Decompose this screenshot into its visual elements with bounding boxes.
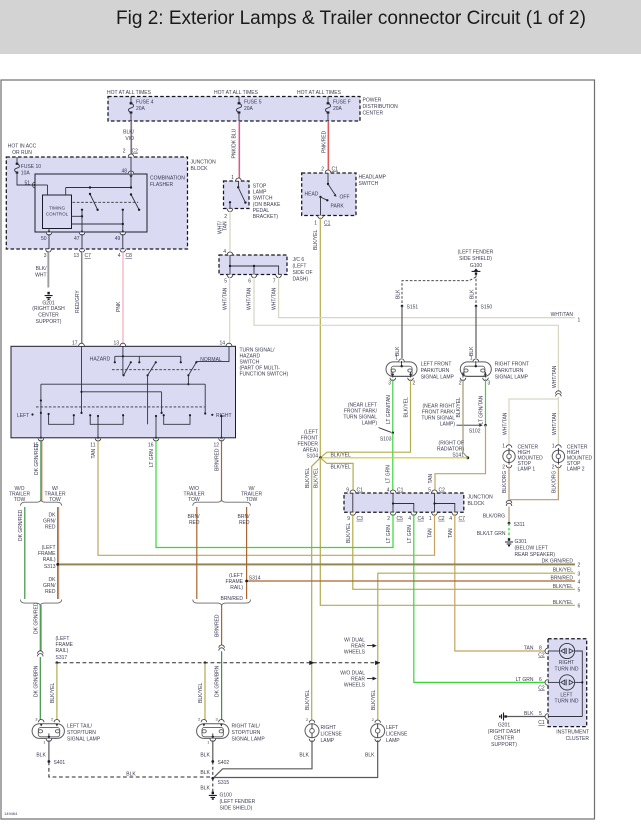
svg-text:SIDE SHIELD): SIDE SHIELD)	[459, 256, 492, 262]
pin 50 connector flasher bottom	[41, 229, 52, 242]
dashed BLK S402 to S315	[200, 762, 212, 779]
svg-text:OFF: OFF	[340, 195, 350, 201]
svg-text:C7: C7	[85, 253, 92, 259]
svg-text:BLK/YEL: BLK/YEL	[50, 682, 56, 703]
svg-text:BLK/YEL: BLK/YEL	[553, 584, 574, 590]
svg-text:SUPPORT): SUPPORT)	[491, 742, 517, 748]
svg-text:OR RUN: OR RUN	[12, 150, 32, 156]
svg-text:C7: C7	[459, 516, 466, 522]
svg-text:HOT AT ALL TIMES: HOT AT ALL TIMES	[214, 90, 259, 96]
svg-text:CLUSTER: CLUSTER	[566, 736, 590, 742]
svg-text:RIGHT: RIGHT	[321, 725, 337, 731]
svg-text:DK GRN/RED: DK GRN/RED	[542, 558, 574, 564]
headlamp switch box	[302, 173, 387, 216]
inline connector on right tail wire	[219, 645, 225, 651]
svg-text:J/C 6: J/C 6	[293, 257, 305, 263]
svg-text:2: 2	[306, 717, 309, 722]
connector 4 C1 junction block 2 top	[387, 488, 404, 494]
svg-text:BLK/YEL: BLK/YEL	[198, 682, 204, 703]
wire LT GRN/TAN right lamp pin3 to S102	[479, 379, 486, 425]
junction block bottom connectors 3, 13 C7, 4 C8	[44, 249, 132, 259]
splice S317 (left frame rail)	[56, 636, 74, 664]
svg-text:C4: C4	[418, 516, 425, 522]
splice S102 with note	[421, 404, 486, 435]
wire BLK S151 to left front lamp	[395, 306, 402, 358]
connector 2 C5 junction block 2 bottom	[387, 513, 403, 522]
svg-text:1: 1	[429, 516, 432, 522]
svg-text:LICENSE: LICENSE	[386, 732, 408, 738]
svg-text:BLK: BLK	[200, 770, 210, 776]
svg-text:47: 47	[74, 236, 80, 242]
svg-text:(RIGHT DASH: (RIGHT DASH	[488, 729, 521, 735]
svg-text:TURN IND: TURN IND	[555, 699, 579, 705]
splice S141 (right of radiator)	[437, 441, 469, 460]
svg-text:COMBINATION: COMBINATION	[150, 176, 185, 182]
svg-text:BLK: BLK	[200, 786, 210, 792]
w/o trailer tow label (middle)	[183, 486, 205, 503]
svg-text:PARK/TURN: PARK/TURN	[495, 368, 524, 374]
svg-text:S401: S401	[54, 760, 66, 766]
svg-text:CENTER: CENTER	[38, 313, 59, 319]
svg-text:STOP/TURN: STOP/TURN	[67, 730, 96, 736]
svg-text:S317: S317	[56, 655, 68, 661]
svg-text:PNK: PNK	[116, 301, 122, 312]
svg-text:2: 2	[578, 562, 581, 568]
svg-text:JUNCTION: JUNCTION	[468, 495, 494, 501]
inline connector on left tail wire	[38, 651, 44, 657]
connector 11 on switch bottom	[90, 436, 101, 449]
svg-text:BLK/YEL: BLK/YEL	[346, 522, 352, 543]
svg-text:2: 2	[198, 717, 201, 722]
svg-text:G301: G301	[515, 539, 527, 545]
svg-text:20A: 20A	[333, 106, 343, 112]
svg-text:LT GRN: LT GRN	[516, 677, 534, 683]
svg-text:4: 4	[223, 249, 226, 255]
junction block (upper left)	[6, 157, 216, 249]
svg-text:49: 49	[115, 236, 121, 242]
left license lamp	[371, 717, 408, 744]
wire PNK/DK BLU fuse5 to stop lamp switch	[232, 121, 240, 178]
svg-text:TURN IND: TURN IND	[555, 667, 579, 673]
svg-text:LAMP: LAMP	[253, 190, 267, 196]
svg-text:BLK/YEL: BLK/YEL	[305, 689, 311, 710]
splice S315	[211, 777, 229, 786]
svg-text:RAIL): RAIL)	[230, 585, 243, 591]
branch DK GRN/RED w/o trailer tow	[18, 507, 25, 599]
w/ dual rear wheels note	[344, 638, 377, 656]
svg-text:WHT/TAN: WHT/TAN	[552, 412, 558, 435]
svg-text:3: 3	[35, 717, 38, 722]
svg-text:LT GRN: LT GRN	[386, 465, 392, 483]
dashed BLK S315 to G100	[200, 778, 212, 791]
svg-text:VIO: VIO	[125, 136, 134, 142]
fuse 5 20A	[236, 97, 261, 122]
svg-text:C3: C3	[357, 516, 364, 522]
svg-text:LAMP 2: LAMP 2	[567, 467, 585, 473]
flasher mechanical link (dashed)	[73, 201, 139, 203]
svg-text:DK GRN/RED: DK GRN/RED	[33, 602, 39, 634]
branch BRN/RED w/ trailer tow to S314	[238, 507, 251, 599]
svg-text:INSTRUMENT: INSTRUMENT	[556, 730, 589, 736]
svg-text:4: 4	[387, 488, 390, 494]
svg-text:PNK/RED: PNK/RED	[322, 130, 328, 153]
svg-text:DASH): DASH)	[293, 277, 309, 283]
svg-text:RIGHT FRONT: RIGHT FRONT	[495, 362, 529, 368]
ground G100 (left fender side shield) upper	[458, 250, 494, 275]
svg-text:BLK/YEL: BLK/YEL	[404, 397, 410, 418]
wire DK GRN/BRN to right tail lamp	[215, 651, 222, 720]
svg-text:3: 3	[44, 253, 47, 259]
WHT/TAN branch to both center stop lamps	[503, 397, 559, 448]
svg-text:FLASHER: FLASHER	[150, 182, 173, 188]
svg-text:C1: C1	[357, 488, 364, 494]
svg-text:LT GRN: LT GRN	[407, 525, 413, 543]
splice S103 with note	[343, 403, 394, 443]
svg-text:2: 2	[552, 465, 555, 471]
svg-text:BLK/YEL: BLK/YEL	[456, 397, 462, 418]
svg-text:TAN: TAN	[448, 528, 454, 538]
svg-text:SIGNAL LAMP: SIGNAL LAMP	[67, 737, 101, 743]
svg-text:48: 48	[121, 169, 127, 175]
svg-text:HEADLAMP: HEADLAMP	[359, 175, 387, 181]
dashed BLK wire G100 to S150 and S151	[396, 275, 477, 307]
connector 17 on switch top	[72, 341, 84, 347]
svg-text:BLK/ORG: BLK/ORG	[483, 513, 505, 519]
wire BLK/YEL right lamp pin2 to S141	[456, 379, 468, 458]
svg-text:BRACKET): BRACKET)	[253, 214, 279, 220]
connector 2 C1 headlamp switch top	[321, 167, 338, 173]
svg-text:BLK/YEL: BLK/YEL	[553, 568, 574, 574]
connector 15 on switch bottom	[33, 436, 44, 449]
splice S311	[508, 522, 525, 528]
svg-text:4: 4	[449, 516, 452, 522]
connector 4 C7 junction block 2 bottom	[449, 513, 465, 522]
svg-text:WHT/TAN: WHT/TAN	[223, 287, 229, 310]
splice S313 (left frame rail)	[38, 545, 59, 570]
svg-text:BLK: BLK	[395, 346, 401, 356]
svg-text:LAMP): LAMP)	[362, 421, 378, 427]
svg-text:5: 5	[578, 587, 581, 593]
wire BLK/ORG to S311	[483, 507, 509, 524]
flasher switch blade 1	[90, 194, 98, 210]
w/o dual rear wheels note	[340, 671, 377, 689]
wire BLK right license lamp to S315	[214, 740, 313, 778]
svg-text:PEDAL: PEDAL	[253, 208, 270, 214]
junction block 2 box	[344, 493, 493, 512]
splice S151	[401, 305, 419, 311]
wire DK GRN/RED turn signal pin 15 down	[34, 440, 42, 502]
wire BLK/YEL tap to right tail lamp	[198, 663, 205, 720]
wire BLK/YEL line 3 to left license lamp	[371, 568, 581, 722]
svg-text:BLK/YEL: BLK/YEL	[305, 467, 311, 488]
splice S104 (left front fender area)	[297, 430, 321, 460]
w/ trailer tow label (left)	[44, 486, 66, 503]
svg-text:(ON BRAKE: (ON BRAKE	[253, 202, 281, 208]
svg-text:JUNCTION: JUNCTION	[191, 160, 217, 166]
stop lamp switch internals	[229, 181, 247, 209]
svg-text:3: 3	[488, 381, 491, 387]
svg-text:BLK/LT GRN: BLK/LT GRN	[477, 531, 506, 537]
pin 51 connector on combination flasher left edge	[24, 181, 35, 188]
DK GRN/RED labels below S313	[43, 577, 56, 595]
svg-text:HOT IN ACC: HOT IN ACC	[8, 144, 37, 150]
wire WHT/TAN J/C6 pin5 to turn signal pin 14	[223, 277, 230, 346]
svg-text:TAN: TAN	[223, 221, 229, 231]
svg-text:LT GRN/TAN: LT GRN/TAN	[386, 395, 392, 424]
svg-text:5: 5	[224, 279, 227, 285]
svg-text:LT GRN: LT GRN	[386, 525, 392, 543]
connector 4 C4 junction block 2 bottom	[408, 513, 424, 522]
connector 9 C1 junction block 2 top	[346, 488, 363, 494]
svg-text:3: 3	[215, 717, 218, 722]
wire BLK left license lamp to S315	[214, 740, 378, 777]
svg-text:13: 13	[73, 253, 79, 259]
ground G201 (right dash center support)	[32, 292, 65, 325]
svg-text:17: 17	[72, 341, 78, 347]
svg-text:6: 6	[578, 604, 581, 610]
svg-text:RED: RED	[239, 520, 250, 526]
branch BRN/RED w/o trailer tow	[188, 507, 201, 599]
svg-text:20A: 20A	[244, 106, 254, 112]
svg-text:6: 6	[248, 279, 251, 285]
svg-text:RAIL): RAIL)	[56, 648, 69, 654]
svg-text:C1: C1	[397, 488, 404, 494]
svg-text:PARK: PARK	[331, 204, 345, 210]
svg-text:S315: S315	[218, 780, 230, 786]
wire BLK right tail lamp to S402	[200, 740, 212, 761]
svg-text:BRN/RED: BRN/RED	[220, 596, 243, 602]
header bar	[0, 0, 641, 54]
J/C 6 internal bus	[229, 255, 279, 275]
svg-text:1: 1	[470, 356, 473, 362]
svg-text:DK GRN/RED: DK GRN/RED	[18, 509, 24, 541]
wire BLK/YEL S104 down to right license lamp	[305, 458, 320, 722]
right tail/stop/turn signal lamp	[197, 717, 266, 745]
svg-text:DK GRN/RED: DK GRN/RED	[34, 443, 40, 475]
svg-text:WHT/TAN: WHT/TAN	[247, 287, 253, 310]
left tail/stop/turn signal lamp	[32, 717, 101, 745]
wire BLK/VIO fuse4 to junction block pin 2 C2	[123, 121, 138, 155]
svg-text:1: 1	[578, 318, 581, 324]
left front park/turn signal lamp	[386, 356, 455, 387]
headlamp switch internals	[305, 173, 350, 216]
wires BLK/ORG stop lamps merge	[502, 467, 558, 503]
svg-text:WHT/TAN: WHT/TAN	[503, 412, 509, 435]
svg-text:DK GRN/BRN: DK GRN/BRN	[215, 665, 221, 697]
inline connector on BLK/ORG	[506, 500, 512, 506]
svg-text:TAN: TAN	[91, 448, 97, 458]
svg-text:WHT/TAN: WHT/TAN	[551, 312, 574, 318]
svg-text:2: 2	[224, 214, 227, 220]
dashed BLK S401 to S315	[49, 762, 212, 778]
svg-text:C2: C2	[538, 686, 545, 692]
connector 13 on switch top	[113, 341, 125, 347]
svg-text:2: 2	[51, 717, 54, 722]
turn signal switch internals	[17, 346, 232, 438]
svg-text:8: 8	[539, 646, 542, 652]
svg-text:6: 6	[539, 677, 542, 683]
wire PNK junction block C8 to turn signal pin 13	[116, 251, 123, 346]
svg-text:SIGNAL LAMP: SIGNAL LAMP	[421, 375, 455, 381]
svg-text:1: 1	[502, 444, 505, 450]
svg-text:WHEELS: WHEELS	[344, 683, 366, 689]
flasher contact to pin 49	[122, 209, 124, 211]
svg-text:12: 12	[213, 443, 219, 449]
svg-text:BLK: BLK	[200, 753, 210, 759]
svg-text:G100: G100	[220, 793, 232, 799]
wire BLK/YEL headlamp switch to S104	[313, 218, 320, 458]
svg-text:S150: S150	[481, 305, 493, 311]
svg-text:1: 1	[43, 740, 46, 745]
svg-text:4: 4	[408, 516, 411, 522]
svg-text:LT GRN/TAN: LT GRN/TAN	[479, 395, 485, 424]
connector 16 on switch bottom	[148, 436, 159, 449]
right license lamp	[305, 717, 343, 744]
wire TAN junction block 2 pin 4 C7 to instrument cluster	[448, 514, 548, 651]
splice S150	[475, 305, 493, 311]
wire BLK/YEL junction block 2 pin 9 C3 to line 5	[346, 514, 581, 593]
dashed BLK/YEL run S317 to license lamps	[57, 661, 380, 666]
wire BLK/YEL S104 to S141	[320, 457, 468, 459]
svg-text:LEFT: LEFT	[17, 413, 29, 419]
inline connector on WHT/TAN wire	[556, 391, 562, 397]
wire BLK/YEL left lamp pin2 to S104	[320, 379, 410, 458]
svg-text:5: 5	[428, 488, 431, 494]
svg-text:(RIGHT DASH: (RIGHT DASH	[32, 306, 65, 312]
svg-text:FUSE F: FUSE F	[333, 100, 351, 106]
wire LT GRN/TAN left lamp pin3 to S103	[386, 379, 393, 433]
svg-text:POWER: POWER	[363, 98, 382, 104]
svg-text:1: 1	[395, 356, 398, 362]
wire BLK/WHT to ground G201	[35, 251, 49, 288]
wire BLK/YEL S317 to left tail lamp	[50, 663, 57, 720]
svg-text:3: 3	[388, 381, 391, 387]
right front park/turn signal lamp	[459, 356, 529, 387]
svg-text:RED: RED	[189, 520, 200, 526]
ground G100 (left fender side shield) lower	[209, 792, 256, 812]
svg-text:FUSE 5: FUSE 5	[244, 100, 262, 106]
fuse 10 10A	[15, 157, 42, 185]
turn signal/hazard switch box	[11, 346, 288, 438]
svg-text:BRN/RED: BRN/RED	[550, 576, 573, 582]
wire TAN S102 to junction block 2 pin 5 C2	[428, 425, 486, 492]
wire PNK/RED fuse F to headlamp switch	[322, 121, 329, 170]
svg-text:9: 9	[347, 516, 350, 522]
splice S314 line BRN/RED to edge 4	[247, 576, 581, 586]
svg-text:DK GRN/BRN: DK GRN/BRN	[33, 665, 39, 697]
svg-text:BLK: BLK	[469, 346, 475, 356]
wire WHT/TAN stop lamp switch to J/C 6	[218, 211, 231, 255]
svg-text:LAMP: LAMP	[321, 738, 335, 744]
left turn indicator lamp	[548, 675, 583, 705]
wires flasher pins to junction block bottom	[49, 234, 123, 249]
svg-text:S311: S311	[514, 522, 526, 528]
combination flasher box	[35, 174, 185, 232]
svg-text:3: 3	[578, 571, 581, 577]
svg-text:STOP: STOP	[253, 184, 267, 190]
svg-text:HAZARD: HAZARD	[90, 357, 111, 363]
svg-text:BLK/ORG: BLK/ORG	[552, 471, 558, 493]
wire BRN/RED merged down to inline connector	[215, 605, 222, 647]
svg-text:16: 16	[148, 443, 154, 449]
svg-text:HEAD: HEAD	[305, 192, 319, 198]
power distribution center box	[108, 97, 398, 122]
svg-text:13: 13	[113, 341, 119, 347]
svg-text:LAMP 1: LAMP 1	[518, 467, 536, 473]
wire BLK/YEL S104 down to line 6	[314, 458, 581, 610]
svg-text:STOP/TURN: STOP/TURN	[232, 730, 261, 736]
svg-text:SIDE SHIELD): SIDE SHIELD)	[220, 806, 253, 812]
svg-text:REAR SPEAKER): REAR SPEAKER)	[515, 552, 556, 558]
pin 49 connector flasher bottom	[115, 229, 126, 242]
wire C2 to pin 48	[130, 157, 132, 174]
svg-text:149464: 149464	[4, 811, 18, 816]
svg-text:S313: S313	[44, 564, 56, 570]
wire RED/GRY junction block C7 to turn signal pin 17	[75, 251, 83, 346]
svg-text:LAMP): LAMP)	[440, 422, 456, 428]
svg-text:WHT/TAN: WHT/TAN	[271, 287, 277, 310]
svg-text:RAIL): RAIL)	[43, 557, 56, 563]
svg-text:S151: S151	[407, 305, 419, 311]
stop lamp switch box	[224, 181, 281, 220]
center high mounted stop lamp 1	[502, 444, 543, 473]
wire BLK left tail lamp to S401	[36, 740, 49, 761]
svg-text:2: 2	[413, 381, 416, 387]
svg-text:G201: G201	[498, 723, 510, 729]
svg-text:4: 4	[578, 579, 581, 585]
connector 1 on stop lamp switch top	[231, 175, 241, 181]
splice S313 line DK GRN/RED to edge 2	[58, 558, 581, 568]
connector 4 on J/C 6 top	[223, 249, 233, 255]
center high mounted stop lamp 2	[552, 444, 593, 473]
wire TAN junction block 2 pin 1 C2 to turn signal pin 11	[91, 440, 435, 556]
svg-text:51: 51	[24, 181, 30, 187]
svg-text:BLOCK: BLOCK	[468, 501, 486, 507]
hot in acc or run label	[8, 144, 37, 157]
svg-text:(LEFT FENDER: (LEFT FENDER	[458, 250, 494, 256]
fuse 4 20A	[128, 97, 153, 122]
connector 9 C3 junction block 2 bottom	[347, 513, 363, 522]
svg-text:C1: C1	[332, 167, 339, 173]
svg-text:HOT AT ALL TIMES: HOT AT ALL TIMES	[297, 90, 342, 96]
svg-text:NORMAL: NORMAL	[200, 357, 222, 363]
connector 12 on switch bottom	[213, 436, 224, 449]
svg-text:BLK/YEL: BLK/YEL	[553, 600, 574, 606]
svg-text:BLK/: BLK/	[36, 266, 47, 272]
wire WHT/TAN J/C6 pin7 to right edge (1)	[271, 277, 580, 324]
svg-text:CONTROL: CONTROL	[46, 212, 69, 217]
wire BLK S150 to right front lamp	[469, 306, 476, 358]
svg-text:(LEFT FENDER: (LEFT FENDER	[220, 799, 256, 805]
timing control box	[43, 195, 72, 229]
ground G201 (right dash center support) right	[488, 713, 521, 749]
svg-text:(LEFT: (LEFT	[293, 264, 307, 270]
fuse F 20A	[325, 97, 350, 122]
ground G301 (below left rear speaker)	[505, 538, 555, 558]
svg-text:FUSE 4: FUSE 4	[136, 100, 154, 106]
svg-text:TAN: TAN	[428, 528, 434, 538]
svg-text:PNK/DK BLU: PNK/DK BLU	[232, 128, 238, 158]
svg-text:C2: C2	[538, 653, 545, 659]
svg-text:LT GRN: LT GRN	[149, 449, 155, 467]
wire TAN into cluster pin 8 C2	[524, 646, 548, 659]
svg-text:WHEELS: WHEELS	[344, 650, 366, 656]
right turn indicator lamp	[548, 643, 582, 716]
svg-text:2: 2	[459, 381, 462, 387]
flasher switch blade 2	[131, 195, 139, 210]
wire LT GRN into cluster pin 6 C2	[516, 677, 548, 692]
wire DK GRN/BRN to left tail lamp	[33, 657, 40, 720]
